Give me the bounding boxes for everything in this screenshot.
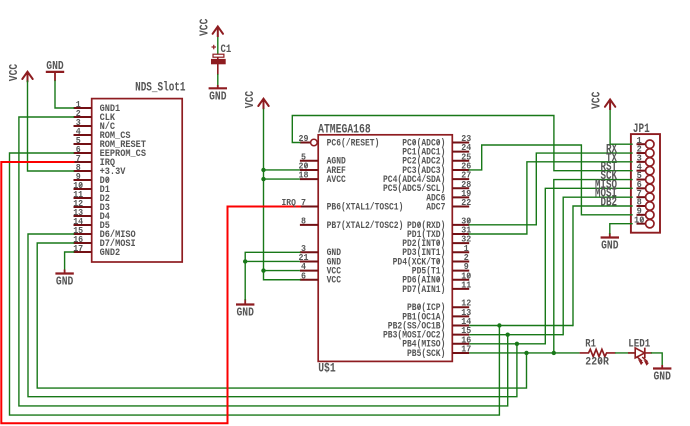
svg-text:17: 17 xyxy=(73,243,83,254)
svg-text:11: 11 xyxy=(461,279,471,290)
junction MISO bus xyxy=(515,342,519,346)
JP1 pin 5 xyxy=(637,170,655,184)
ground GND (below NDS, GND2) xyxy=(55,270,73,289)
LED LED1 xyxy=(628,338,652,365)
wire VCC to JP1 pin1 xyxy=(610,111,632,145)
wire C1 to GND xyxy=(217,74,219,86)
junction SCK bus xyxy=(524,351,528,355)
JP1 pin 9 xyxy=(637,206,655,220)
svg-text:TX: TX xyxy=(606,151,617,165)
NDS_Slot1 pin 16 D7/MOSI xyxy=(73,234,136,250)
ATMEGA168 pin 20 AREF xyxy=(299,160,346,176)
svg-text:VCC: VCC xyxy=(590,92,604,109)
NDS_Slot1 pin 13 D4 xyxy=(73,207,110,223)
ATMEGA168 pin 30 PD0(RXD) xyxy=(407,215,472,231)
ATMEGA168 pin 14 PB2(SS/OC1B) xyxy=(388,316,472,332)
IC U$1 name label xyxy=(318,362,336,376)
wire net RST: PC6(/RESET) over top to JP1 pin4 xyxy=(292,116,632,171)
wire net DB2: PB2(SS) to JP1 pin8 xyxy=(469,206,632,325)
svg-text:PD7(AIN1): PD7(AIN1) xyxy=(402,284,445,296)
IC U$1 ATMEGA168 body xyxy=(318,135,452,362)
JP1 pin 7 xyxy=(637,188,655,201)
JP1 pin 4 xyxy=(637,161,655,175)
NDS_Slot1 pin 4 ROM_CS xyxy=(74,126,131,142)
connector NDS_Slot1 title xyxy=(135,80,186,95)
svg-text:GND2: GND2 xyxy=(100,247,121,259)
ATMEGA168 pin 31 PD1(TXD) xyxy=(407,225,472,241)
label MOSI xyxy=(595,187,617,201)
wire GND to NDS pin1 GND1 xyxy=(55,81,74,108)
ATMEGA168 pin 7 PB6(XTAL1/TOSC1) xyxy=(300,197,404,213)
ATMEGA168 pin 23 PC0(ADC0) xyxy=(402,133,471,149)
svg-text:VCC: VCC xyxy=(327,275,342,287)
svg-text:GND: GND xyxy=(654,370,671,384)
NDS_Slot1 pin 12 D3 xyxy=(73,198,110,214)
svg-text:7: 7 xyxy=(301,197,306,208)
NDS_Slot1 pin 14 D5 xyxy=(73,216,110,232)
ATMEGA168 pin 22 ADC7 xyxy=(426,197,471,213)
NDS_Slot1 pin 1 GND1 xyxy=(74,99,121,115)
ground GND (below C1) xyxy=(209,85,227,103)
ground GND (below ATMEGA left) xyxy=(236,299,254,320)
JP1 pin 1 xyxy=(637,135,655,149)
svg-text:ADC7: ADC7 xyxy=(426,201,445,213)
svg-text:GND: GND xyxy=(46,59,63,73)
ATMEGA168 pin 24 PC1(ADC1) xyxy=(402,142,471,158)
svg-text:6: 6 xyxy=(301,270,306,281)
svg-text:NDS_Slot1: NDS_Slot1 xyxy=(135,80,186,95)
wire NDS pin17 GND2 to ground xyxy=(65,252,74,270)
svg-text:PB7(XTAL2/TOSC2): PB7(XTAL2/TOSC2) xyxy=(327,220,404,232)
capacitor C1 xyxy=(211,44,231,75)
JP1 pin 3 xyxy=(637,153,655,167)
ATMEGA168 pin 3 GND xyxy=(300,243,341,259)
svg-text:IRQ: IRQ xyxy=(282,197,297,208)
wire net RX: JP1 pin2 to PD0(RXD) xyxy=(469,153,632,225)
ATMEGA168 pin 16 PB4(MISO) xyxy=(402,334,471,350)
label RST xyxy=(601,160,618,174)
ATMEGA168 pin 27 PC4(ADC4/SDA) xyxy=(383,170,472,186)
JP1 pin 6 xyxy=(637,179,655,193)
label DB2 xyxy=(601,196,618,210)
NDS_Slot1 pin 6 EEPROM_CS xyxy=(74,144,147,160)
svg-text:10: 10 xyxy=(634,214,645,225)
ATMEGA168 pin 11 PD7(AIN1) xyxy=(402,279,471,295)
wire net MISO: PB4(MISO) to JP1 pin6 xyxy=(469,188,632,343)
IC U$1 ATMEGA168 title xyxy=(318,122,371,137)
NDS_Slot1 pin 8 +3.3V xyxy=(74,162,126,178)
ground GND (below LED1) xyxy=(653,365,671,384)
JP1 pin 8 xyxy=(637,197,655,210)
junction at GND pin21 xyxy=(243,259,247,263)
wire LED1 to GND xyxy=(652,353,663,366)
wire net SCK row: PB5(SCK) to R1 and JP1 pin5 xyxy=(469,180,632,353)
wire net PC3(ADC3) to JP1 pin9 xyxy=(469,145,632,215)
NDS_Slot1 pin 15 D6/MISO xyxy=(73,225,136,241)
wire GND pins 3,21 to ground xyxy=(245,252,300,299)
junction DB2 bus xyxy=(497,323,501,327)
wire JP1 pin10 to GND xyxy=(610,224,632,234)
wire net D7/MOSI: NDS pin16 to bottom bus to PB5 row xyxy=(37,243,526,388)
ATMEGA168 pin 21 GND xyxy=(299,252,342,268)
svg-text:22: 22 xyxy=(461,197,471,208)
connector NDS_Slot1 body xyxy=(92,99,183,262)
label MISO xyxy=(595,178,617,192)
JP1 pin 10 xyxy=(634,214,654,228)
power VCC (left of ATMEGA) xyxy=(243,91,269,109)
svg-text:U$1: U$1 xyxy=(318,362,336,376)
power VCC (above C1) xyxy=(197,19,223,37)
junction at AREF xyxy=(261,168,265,172)
NDS_Slot1 pin 17 GND2 xyxy=(73,243,120,259)
svg-text:GND: GND xyxy=(237,306,254,320)
junction SCK/R1 xyxy=(552,351,556,355)
ATMEGA168 pin 5 AGND xyxy=(300,151,346,167)
NDS_Slot1 pin 3 N/C xyxy=(74,117,116,133)
wire net TX: JP1 pin3 to PD1(TXD) xyxy=(469,162,632,234)
label TX xyxy=(606,151,617,165)
NDS_Slot1 pin 10 D1 xyxy=(73,180,110,196)
ATMEGA168 pin 2 PD4(XCK/T0) xyxy=(393,252,470,268)
ATMEGA168 pin 4 VCC xyxy=(300,261,342,277)
label SCK xyxy=(601,169,618,183)
NDS_Slot1 pin 11 D2 xyxy=(73,189,110,205)
JP1 pin 2 xyxy=(637,144,655,158)
ATMEGA168 pin 29 PC6(/RESET) xyxy=(299,133,380,149)
svg-text:VCC: VCC xyxy=(197,19,211,36)
wire VCC to NDS pin8 +3.3V xyxy=(28,81,74,171)
svg-text:VCC: VCC xyxy=(243,91,257,108)
label RX xyxy=(606,143,617,157)
ground GND (below JP1) xyxy=(601,233,619,253)
ATMEGA168 pin 8 PB7(XTAL2/TOSC2) xyxy=(300,215,404,231)
svg-text:C1: C1 xyxy=(221,44,232,56)
svg-text:GND: GND xyxy=(56,275,73,289)
ATMEGA168 pin 32 PD2(INT0) xyxy=(402,234,471,250)
junction MOSI bus xyxy=(506,332,510,336)
connector JP1 title xyxy=(633,121,650,136)
wire net MOSI: PB3(MOSI) to JP1 pin7 xyxy=(469,197,632,334)
svg-text:PC6(/RESET): PC6(/RESET) xyxy=(327,137,380,149)
svg-text:R1: R1 xyxy=(585,338,596,350)
svg-text:PB6(XTAL1/TOSC1): PB6(XTAL1/TOSC1) xyxy=(327,201,404,213)
connector JP1 body xyxy=(631,134,660,233)
wire net D6/MISO: NDS pin15 to bottom bus to PB4 row xyxy=(28,234,517,397)
svg-text:8: 8 xyxy=(301,215,306,226)
svg-text:PB5(SCK): PB5(SCK) xyxy=(407,348,445,360)
ATMEGA168 pin 26 PC3(ADC3) xyxy=(402,160,471,176)
junction at AVCC xyxy=(261,177,265,181)
ATMEGA168 pin 13 PB1(OC1A) xyxy=(402,307,471,323)
ATMEGA168 pin 25 PC2(ADC2) xyxy=(402,151,471,167)
ATMEGA168 pin 19 ADC6 xyxy=(426,188,471,204)
svg-text:GND: GND xyxy=(209,89,226,103)
ATMEGA168 pin 12 PB0(ICP) xyxy=(407,298,472,314)
power VCC (left, +3.3V net) xyxy=(7,64,33,82)
ATMEGA168 pin 1 PD3(INT1) xyxy=(402,243,469,259)
ATMEGA168 pin 17 PB5(SCK) xyxy=(407,343,472,359)
NDS_Slot1 pin 7 IRQ xyxy=(74,153,116,169)
wire net CLK: NDS pin2 to bottom bus to PB3 row xyxy=(19,117,508,406)
NDS_Slot1 pin 5 ROM_RESET xyxy=(74,135,147,151)
ATMEGA168 pin 10 PD6(AIN0) xyxy=(402,270,471,286)
ATMEGA168 pin 28 PC5(ADC5/SCL) xyxy=(383,179,472,195)
svg-text:18: 18 xyxy=(299,170,309,181)
junction at VCC pin4 xyxy=(261,268,265,272)
wire VCC to C1 xyxy=(217,37,219,54)
svg-text:AVCC: AVCC xyxy=(327,174,347,186)
svg-text:VCC: VCC xyxy=(7,64,21,81)
wire net EEPROM_CS: NDS pin6 to bottom bus to PB2 row xyxy=(10,153,500,415)
label IRQ xyxy=(282,197,297,208)
svg-text:GND: GND xyxy=(601,239,618,253)
NDS_Slot1 pin 2 CLK xyxy=(74,108,116,124)
wire VCC to AREF/AVCC/VCC pins xyxy=(264,110,300,280)
ATMEGA168 pin 18 AVCC xyxy=(299,170,347,186)
NDS_Slot1 pin 9 D0 xyxy=(74,171,110,187)
svg-text:DB2: DB2 xyxy=(601,196,618,210)
ground GND (top left, to NDS pin1) xyxy=(46,59,64,81)
svg-text:LED1: LED1 xyxy=(628,338,650,350)
svg-text:220R: 220R xyxy=(585,357,609,369)
wire R1 to LED1 xyxy=(615,352,636,354)
ATMEGA168 pin 6 VCC xyxy=(300,270,342,286)
ATMEGA168 pin 9 PD5(T1) xyxy=(412,261,469,277)
ATMEGA168 pin 15 PB3(MOSI/OC2) xyxy=(383,325,472,341)
wire net IRQ (NDS pin7 to PB6) thick red xyxy=(1,162,300,423)
resistor R1 xyxy=(580,338,616,368)
power VCC (above JP1) xyxy=(590,92,616,110)
